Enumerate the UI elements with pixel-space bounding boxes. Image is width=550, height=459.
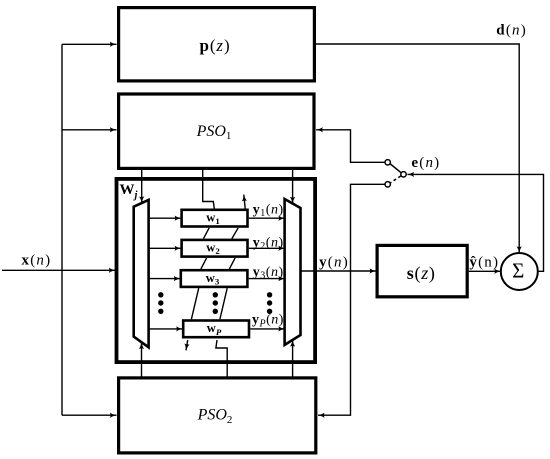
- svg-text:y3(n): y3(n): [253, 265, 284, 282]
- svg-text:s(z): s(z): [407, 263, 436, 284]
- svg-text:Wj: Wj: [120, 182, 138, 201]
- svg-text:d(n): d(n): [496, 23, 527, 39]
- svg-text:y2(n): y2(n): [253, 235, 284, 252]
- svg-text:Σ: Σ: [512, 259, 524, 283]
- svg-text:x(n): x(n): [21, 253, 51, 269]
- svg-text:p(z): p(z): [199, 36, 230, 55]
- svg-text:y(n): y(n): [319, 254, 349, 270]
- svg-text:y1(n): y1(n): [253, 202, 284, 219]
- svg-text:e(n): e(n): [411, 155, 440, 171]
- svg-text:yP(n): yP(n): [252, 313, 284, 330]
- svg-text:ŷ(n): ŷ(n): [469, 255, 499, 271]
